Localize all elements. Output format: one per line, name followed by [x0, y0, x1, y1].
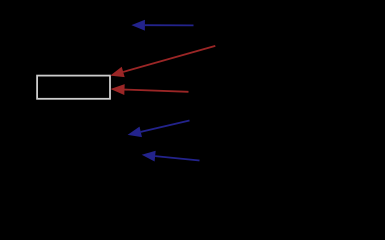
arrow D (blue, middle, pointing down-left) [128, 121, 190, 138]
arrow A (blue, top, pointing left) [131, 20, 193, 31]
arrow C (red, lower, to box right edge) [111, 84, 189, 95]
arrow B (red, upper, to box top-right corner) [110, 46, 215, 77]
arrow E (blue, bottom, pointing left) [142, 151, 200, 162]
memory box [37, 76, 110, 99]
